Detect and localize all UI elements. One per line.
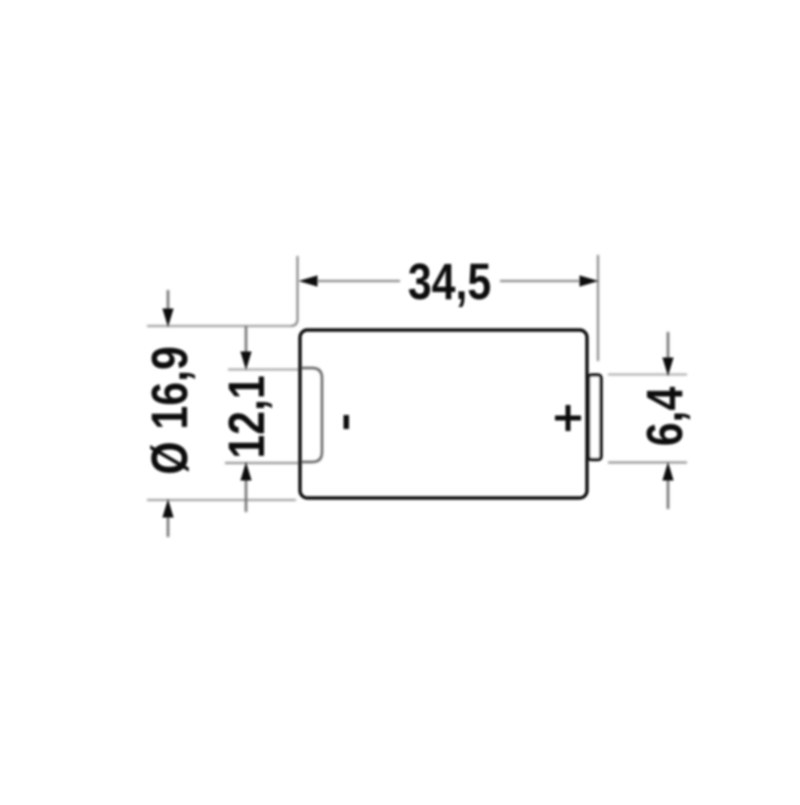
- negative terminal recess tab: [301, 368, 322, 462]
- dim 34,5: label: [408, 252, 491, 309]
- dim 34,5: dimension line left segment: [317, 280, 400, 282]
- plus sign: [555, 405, 581, 431]
- svg-text:Ø 16,9: Ø 16,9: [140, 346, 197, 475]
- dim 16,9: top arrow tail: [167, 290, 169, 312]
- dim 6,4: label: [635, 387, 692, 447]
- dim 16,9: label: [140, 346, 197, 475]
- dim 6,4: top arrow tail: [667, 332, 669, 361]
- dim 34,5: left arrowhead: [299, 275, 318, 286]
- dim 16,9: bottom arrowhead: [162, 499, 173, 518]
- dim 16,9: top extension line: [147, 325, 291, 327]
- dim 12,1: top extension line: [228, 369, 299, 371]
- dim 16,9: bottom extension line: [147, 499, 296, 501]
- dim 12,1: bottom arrowhead: [240, 462, 251, 481]
- dim 16,9: top arrowhead: [162, 309, 173, 328]
- svg-text:6,4: 6,4: [635, 387, 692, 447]
- battery body outline: [300, 330, 587, 498]
- dim 12,1: label: [217, 375, 274, 458]
- dim 6,4: top arrowhead: [662, 358, 673, 377]
- dim 6,4: top extension line: [608, 374, 687, 376]
- positive terminal nub: [589, 375, 602, 460]
- dim 12,1: bottom extension line: [225, 462, 299, 464]
- svg-text:34,5: 34,5: [408, 252, 491, 309]
- dim 34,5: dimension line right segment: [500, 280, 580, 282]
- svg-text:12,1: 12,1: [217, 375, 274, 458]
- dim 34,5: right arrowhead: [580, 275, 599, 286]
- dim 6,4: bottom arrowhead: [662, 462, 673, 481]
- dim 6,4: bottom arrow tail: [667, 478, 669, 509]
- dim 12,1: top arrowhead: [240, 352, 251, 371]
- dim 34,5: right extension line: [597, 255, 599, 361]
- dim 6,4: bottom extension line: [608, 462, 687, 464]
- dim 12,1: top arrow tail from 16,9 extension: [245, 326, 247, 355]
- minus sign: [344, 415, 350, 429]
- dim 16,9: bottom arrow tail: [167, 515, 169, 537]
- dim 12,1: bottom arrow tail: [245, 478, 247, 512]
- dim 34,5: left extension line: [291, 256, 298, 326]
